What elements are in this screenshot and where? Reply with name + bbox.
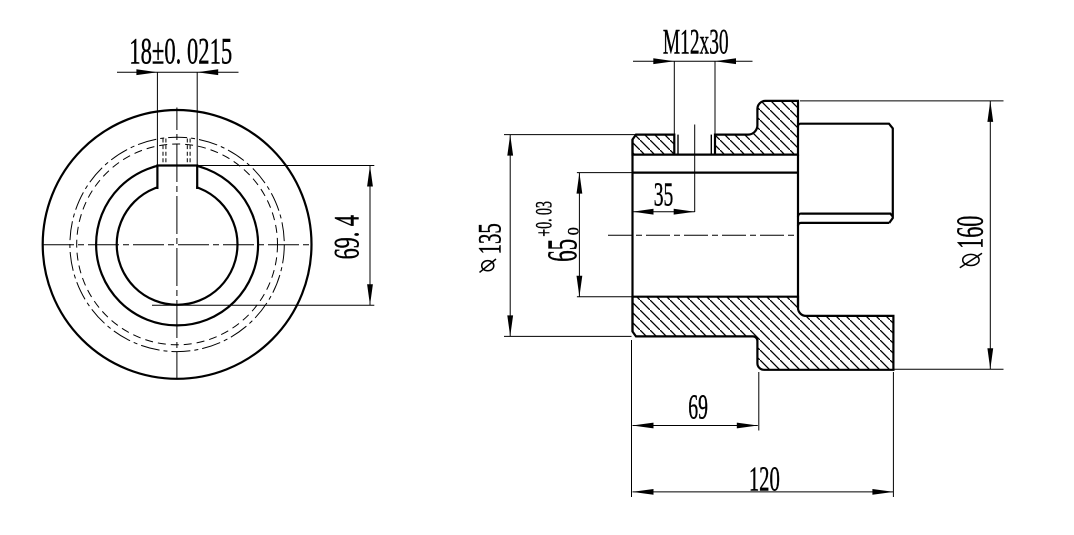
lower hatched section: [633, 297, 894, 370]
svg-text:120: 120: [749, 460, 780, 499]
hidden tapped hole lines (M12 set screw): [163, 139, 190, 165]
axis centerline: [608, 234, 798, 236]
bore top line: [633, 172, 799, 174]
dimension 69: [632, 340, 759, 497]
dimension M12x30: [633, 61, 753, 154]
bore circle: [117, 184, 238, 305]
spigot top edge: [798, 124, 893, 223]
svg-text:18±0. 0215: 18±0. 0215: [129, 30, 232, 72]
outer circle (hub OD): [43, 110, 312, 379]
horizontal centerline: [43, 244, 311, 246]
svg-text:69: 69: [688, 389, 708, 427]
svg-text:0: 0: [566, 227, 583, 235]
vertical centerline: [176, 108, 178, 380]
bold outline extras: [633, 124, 893, 332]
svg-text:135: 135: [470, 223, 507, 254]
keyway void mask: [158, 162, 196, 191]
thread lines M12: [678, 135, 711, 155]
dimension 35: [633, 211, 695, 213]
keyway outline: [157, 166, 197, 190]
dimension 69.4: [152, 166, 374, 306]
svg-text:+0. 03: +0. 03: [532, 201, 557, 236]
spigot groove lines: [798, 214, 893, 217]
dimension 120: [633, 372, 894, 497]
left face: [631, 140, 633, 332]
svg-text:35: 35: [654, 176, 673, 214]
dimension 65 +0.03/0: [577, 173, 633, 297]
dimension phi160: [800, 101, 1004, 369]
dimension phi135: [504, 135, 674, 337]
middle circle (boss OD): [96, 163, 258, 325]
upper hatched section: [633, 101, 799, 155]
dash-dot circle (pitch circle): [70, 137, 284, 351]
svg-text:160: 160: [949, 216, 992, 249]
recess wall: [797, 155, 799, 308]
tapped hole centerline: [694, 125, 696, 213]
svg-text:M12x30: M12x30: [663, 24, 729, 62]
dimension 18±0.0215: [117, 72, 239, 165]
svg-text:65: 65: [540, 239, 586, 262]
svg-text:69. 4: 69. 4: [327, 215, 367, 260]
hidden dashed circle: [77, 144, 278, 345]
